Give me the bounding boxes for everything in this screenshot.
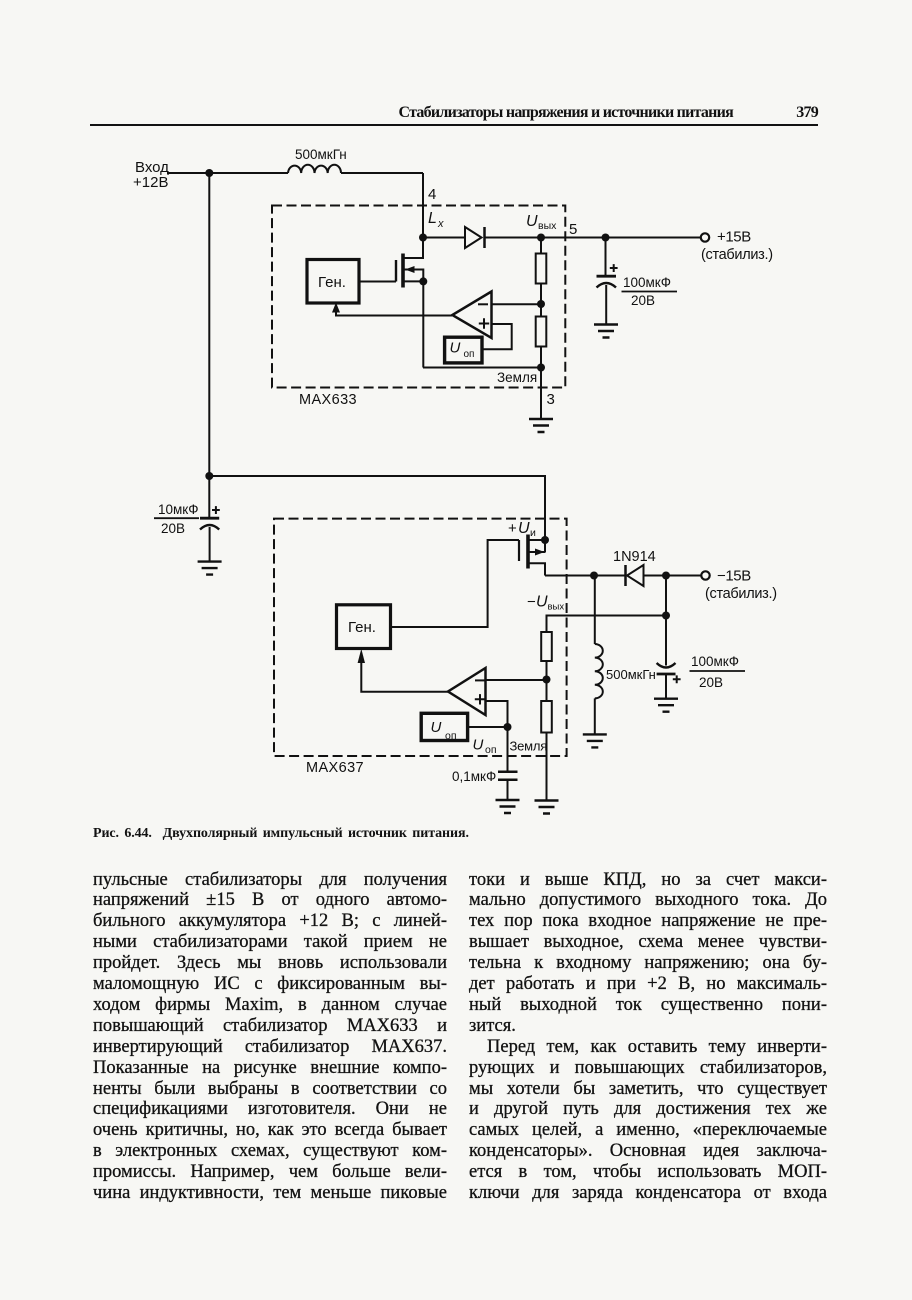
- wire pin 4 drop: [422, 173, 424, 238]
- node Lx junction dot: [419, 234, 427, 242]
- arrow into Ген. (U2): [358, 649, 365, 663]
- capacitor C2 plus sign: [212, 506, 220, 514]
- node Uвых junction dot: [537, 234, 545, 242]
- capacitor C3 wire: [665, 576, 667, 666]
- node input junction dot: [205, 169, 213, 177]
- wire comparator output to oscillator: [336, 312, 452, 316]
- svg-text:оп: оп: [464, 349, 475, 360]
- net label +Uи: [508, 520, 536, 539]
- svg-text:4: 4: [428, 186, 436, 203]
- svg-text:(стабилиз.): (стабилиз.): [701, 247, 773, 263]
- svg-text:МАХ633: МАХ633: [299, 392, 357, 408]
- wire input horizontal: [167, 172, 288, 174]
- node ground-rail junction dot: [537, 364, 545, 372]
- transistor Q1 source stub: [404, 280, 423, 282]
- svg-text:+12В: +12В: [133, 174, 168, 191]
- right text column: [469, 870, 827, 1205]
- IC U1 MAX633 dashed box: [272, 206, 565, 388]
- wire diode to terminal: [644, 575, 702, 577]
- net label Земля: [497, 370, 537, 385]
- left text column: [93, 870, 447, 1205]
- resistor R2: [536, 317, 547, 347]
- oscillator block Ген. (U1 internal): [307, 260, 359, 304]
- node label "Вход +12В": [133, 159, 169, 191]
- node inductor junction dot: [590, 572, 598, 580]
- ground (C3): [654, 699, 678, 712]
- ground (L2): [583, 734, 607, 747]
- wire feedback -Uвых: [547, 616, 667, 633]
- comparator U2a triangle: [448, 668, 486, 715]
- figure caption: [93, 827, 469, 841]
- pin number 3: [547, 391, 555, 408]
- resistor R3: [541, 632, 552, 661]
- transistor Q2 body arrow: [530, 540, 546, 553]
- node output junction dot: [602, 234, 610, 242]
- svg-text:вых: вых: [548, 602, 565, 613]
- comparator minus sign: [475, 679, 485, 681]
- comparator U1a triangle: [452, 292, 491, 339]
- capacitor C1 plates: [597, 275, 617, 278]
- transistor Q1 body arrow: [404, 270, 423, 282]
- inductor L1 500мкГн: [288, 165, 341, 173]
- ground (pin 3): [529, 419, 553, 432]
- transistor Q2 (MOSFET) gate lead: [391, 540, 520, 627]
- reference block Uоп (U2 internal): [421, 713, 467, 740]
- svg-text:(стабилиз.): (стабилиз.): [705, 586, 777, 602]
- value label 500мкГн (L2): [606, 667, 656, 682]
- diode D2 1N914 cathode bar: [624, 565, 627, 586]
- circuit figure: [0, 0, 912, 820]
- capacitor C2 10мкФ wire: [208, 476, 210, 517]
- node R1/R2 junction dot: [537, 300, 545, 308]
- pin number 5: [569, 221, 577, 238]
- wire comparator plus input: [486, 701, 508, 727]
- inductor L2 500мкГн wire: [594, 576, 596, 645]
- wire comparator output to oscillator: [361, 661, 449, 692]
- ground (C2): [198, 562, 222, 575]
- comparator minus sign: [478, 303, 488, 305]
- arrow into Ген.: [332, 303, 340, 313]
- wire pin 3 to ground: [540, 368, 542, 420]
- svg-text:Земля: Земля: [510, 739, 548, 754]
- svg-text:+15В: +15В: [717, 229, 751, 246]
- node Q1 source junction dot: [419, 277, 427, 285]
- ground (C1): [594, 325, 618, 338]
- svg-text:Земля: Земля: [497, 370, 537, 385]
- node R3/R4 junction dot: [543, 676, 551, 684]
- capacitor C1 wire: [605, 238, 607, 276]
- wire inductor to pin 4: [341, 172, 423, 174]
- net label -Uвых: [527, 594, 564, 613]
- svg-text:500мкГн: 500мкГн: [606, 667, 656, 682]
- transistor Q1 drain stub: [404, 238, 423, 259]
- transistor Q1 gate bar: [395, 260, 397, 282]
- transistor Q2 drain stub: [530, 539, 546, 541]
- svg-text:U: U: [450, 340, 461, 357]
- svg-text:10мкФ: 10мкФ: [158, 502, 198, 517]
- header rule: [90, 124, 818, 126]
- value label 100мкФ/20В (C3): [691, 654, 739, 690]
- comparator plus sign: [475, 694, 485, 704]
- ground (R4 / Земля pin): [535, 801, 559, 814]
- capacitor C3 lower wire: [665, 674, 667, 699]
- diode D2 triangle: [627, 565, 644, 586]
- wire Q1 source down: [422, 281, 424, 367]
- ground (C4): [496, 800, 520, 813]
- terminal -15В open circle: [701, 571, 709, 579]
- wire Q2 source to diode: [545, 575, 626, 577]
- wire diode to output: [485, 237, 701, 239]
- capacitor C3 plus sign: [673, 675, 681, 683]
- node label Uвых: [526, 213, 557, 232]
- svg-text:U: U: [431, 719, 442, 736]
- svg-text:Ген.: Ген.: [348, 619, 376, 636]
- pin number 4: [428, 186, 436, 203]
- capacitor C1 100мкФ plus sign: [610, 264, 618, 272]
- transistor Q2 channel bar: [526, 535, 530, 569]
- value label 1N914: [613, 549, 656, 565]
- capacitor C2 lower wire: [209, 527, 211, 562]
- capacitor C2 plates: [200, 517, 219, 520]
- wire plus node to C4: [507, 727, 509, 771]
- capacitor C3 plates: [657, 663, 676, 668]
- label МАХ637: [306, 760, 364, 776]
- comparator plus sign: [479, 318, 489, 328]
- svg-text:100мкФ: 100мкФ: [691, 654, 739, 669]
- svg-text:и: и: [530, 527, 536, 539]
- wire internal ground rail: [423, 367, 541, 369]
- net label Uоп (pin): [473, 737, 497, 757]
- reference block Uоп (U1 internal): [445, 337, 482, 363]
- svg-text:20В: 20В: [161, 521, 185, 536]
- svg-text:МАХ637: МАХ637: [306, 760, 364, 776]
- svg-text:500мкГн: 500мкГн: [295, 147, 347, 162]
- svg-text:100мкФ: 100мкФ: [623, 275, 671, 290]
- transistor Q1 channel bar: [401, 254, 405, 288]
- node feedback junction dot: [662, 612, 670, 620]
- svg-text:x: x: [437, 218, 444, 230]
- transistor Q2 source stub: [530, 563, 546, 575]
- resistor R1: [540, 238, 542, 254]
- svg-text:U: U: [518, 520, 530, 537]
- svg-text:вых: вых: [538, 220, 557, 232]
- svg-text:20В: 20В: [631, 293, 655, 308]
- label +15В (стабилиз.): [701, 229, 773, 264]
- wire comparator plus input: [482, 324, 512, 349]
- svg-text:−: −: [527, 594, 536, 611]
- svg-text:3: 3: [547, 391, 555, 408]
- svg-text:Ген.: Ген.: [318, 274, 346, 291]
- svg-text:+: +: [508, 520, 517, 537]
- running head: [0, 105, 818, 121]
- resistor R4: [541, 701, 552, 733]
- node Lx label: [428, 210, 444, 230]
- label -15В (стабилиз.): [705, 568, 777, 603]
- transistor Q1 (n-MOSFET) gate lead: [359, 281, 396, 283]
- node +Uи junction dot: [541, 536, 549, 544]
- value label 100мкФ/20В: [623, 275, 671, 308]
- oscillator block Ген. (U2 internal): [337, 605, 391, 649]
- node C3 junction dot: [662, 572, 670, 580]
- svg-text:U: U: [536, 594, 548, 611]
- wire Uоп to plus node: [468, 726, 508, 728]
- svg-text:20В: 20В: [699, 675, 723, 690]
- capacitor C4 lower wire: [507, 780, 509, 800]
- capacitor C1 lower wire: [605, 285, 607, 325]
- node plus-input junction dot: [504, 723, 512, 731]
- wire input rail down: [208, 173, 210, 476]
- value label 0,1мкФ: [452, 769, 496, 784]
- wire Lx to diode: [423, 237, 465, 239]
- svg-text:U: U: [473, 737, 484, 754]
- label МАХ633: [299, 392, 357, 408]
- inductor L2 lower wire: [594, 698, 596, 734]
- svg-text:оп: оп: [445, 730, 457, 742]
- net label Земля (lower): [510, 739, 548, 754]
- capacitor C4 0,1мкФ plates: [498, 772, 518, 780]
- wire to MAX637 supply: [209, 476, 545, 540]
- diode D1: [465, 227, 482, 248]
- svg-text:L: L: [428, 210, 437, 227]
- wire comparator minus input: [491, 303, 541, 305]
- svg-text:0,1мкФ: 0,1мкФ: [452, 769, 496, 784]
- wire comparator minus input: [486, 679, 547, 681]
- svg-text:U: U: [526, 213, 538, 230]
- IC U2 MAX637 dashed box: [274, 519, 567, 756]
- transistor Q2 gate bar: [518, 540, 520, 561]
- svg-text:5: 5: [569, 221, 577, 238]
- terminal +15В open circle: [701, 233, 709, 241]
- inductor L2 coil: [595, 644, 603, 698]
- svg-text:1N914: 1N914: [613, 549, 656, 565]
- value label 10мкФ/20В: [158, 502, 198, 536]
- svg-text:−15В: −15В: [717, 568, 751, 585]
- node input/C2 junction dot: [205, 472, 213, 480]
- svg-text:оп: оп: [485, 744, 497, 756]
